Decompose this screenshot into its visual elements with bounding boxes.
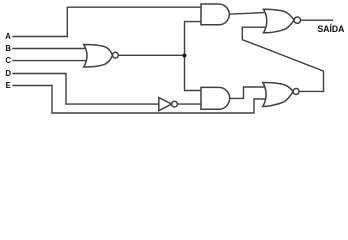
svg-text:E: E <box>6 81 11 90</box>
svg-text:A: A <box>5 32 11 41</box>
svg-text:D: D <box>5 69 11 78</box>
svg-text:C: C <box>5 56 11 65</box>
svg-text:SAÍDA: SAÍDA <box>318 23 345 35</box>
svg-text:B: B <box>5 44 11 53</box>
